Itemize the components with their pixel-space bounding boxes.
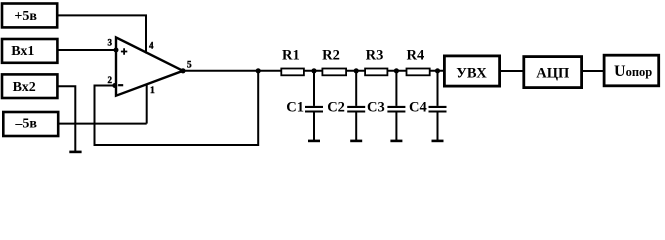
svg-text:–5в: –5в bbox=[14, 116, 37, 131]
svg-text:R1: R1 bbox=[282, 48, 300, 64]
op-amp plus sign bbox=[121, 48, 127, 54]
svg-text:Uопор: Uопор bbox=[614, 63, 652, 80]
node pin2 dot bbox=[112, 83, 117, 88]
main output bus wire bbox=[183, 70, 445, 72]
resistor R4 bbox=[407, 48, 430, 76]
node pin3 dot bbox=[114, 48, 119, 53]
wire Вх1 to pin3 bbox=[59, 49, 118, 51]
box УВХ bbox=[444, 56, 499, 86]
svg-text:4: 4 bbox=[149, 40, 154, 50]
op-amp U1 triangle bbox=[116, 37, 183, 95]
node feedback tap dot bbox=[256, 68, 261, 73]
wire Вх2 to ground bbox=[59, 86, 76, 151]
resistor R3 bbox=[365, 48, 387, 76]
svg-text:C4: C4 bbox=[409, 99, 427, 115]
ground C3 bbox=[390, 140, 402, 143]
ground C2 bbox=[350, 140, 362, 143]
svg-text:R4: R4 bbox=[407, 48, 425, 64]
svg-text:C2: C2 bbox=[327, 99, 345, 115]
box +5в bbox=[2, 4, 57, 28]
svg-text:Вх2: Вх2 bbox=[13, 80, 36, 95]
svg-text:3: 3 bbox=[108, 37, 113, 47]
ground C1 bbox=[308, 140, 320, 143]
svg-text:АЦП: АЦП bbox=[536, 65, 569, 81]
node 3 dot bbox=[394, 68, 399, 73]
capacitor C2 bbox=[327, 71, 365, 140]
wire pin1 vertical bbox=[146, 84, 148, 124]
wire УВХ to АЦП bbox=[501, 70, 523, 72]
op-amp minus sign bbox=[118, 84, 123, 86]
node 4 dot bbox=[435, 68, 440, 73]
svg-text:УВХ: УВХ bbox=[456, 65, 487, 81]
wire АЦП to Uопор bbox=[583, 70, 605, 72]
svg-text:5: 5 bbox=[187, 61, 192, 71]
box Вх2 bbox=[2, 74, 57, 98]
ground (Вх2) bbox=[69, 151, 81, 154]
resistor R2 bbox=[322, 48, 346, 76]
svg-text:C3: C3 bbox=[367, 99, 385, 115]
svg-text:+5в: +5в bbox=[14, 9, 37, 24]
ground C4 bbox=[432, 140, 444, 143]
wire pin2 feedback bbox=[95, 71, 259, 145]
wire +5в to pin4 bbox=[59, 15, 147, 53]
capacitor C4 bbox=[409, 71, 447, 140]
capacitor C3 bbox=[367, 71, 405, 140]
svg-text:2: 2 bbox=[108, 75, 113, 85]
box Вх1 bbox=[2, 39, 57, 63]
svg-text:Вх1: Вх1 bbox=[11, 44, 34, 59]
svg-text:1: 1 bbox=[150, 86, 155, 96]
box АЦП bbox=[524, 57, 582, 88]
wire -5в to pin1 bbox=[59, 123, 147, 125]
node 2 dot bbox=[354, 68, 359, 73]
node 1 dot bbox=[311, 68, 316, 73]
box -5в bbox=[3, 112, 58, 136]
svg-text:R2: R2 bbox=[322, 48, 340, 64]
resistor R1 bbox=[281, 48, 304, 76]
svg-text:R3: R3 bbox=[366, 48, 384, 64]
box Uопор bbox=[604, 55, 659, 86]
capacitor C1 bbox=[286, 71, 323, 140]
node pin5 dot bbox=[180, 68, 185, 73]
svg-text:C1: C1 bbox=[286, 99, 304, 115]
